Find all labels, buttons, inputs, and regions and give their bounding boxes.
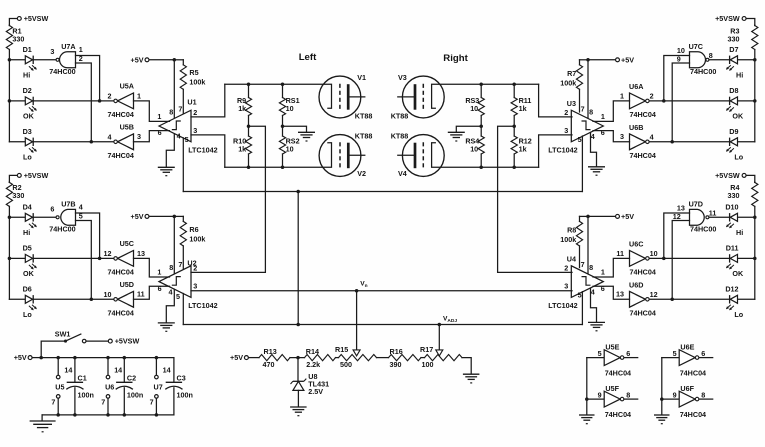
svg-text:R5: R5 [189, 68, 198, 77]
svg-text:U5C: U5C [120, 239, 134, 248]
svg-text:14: 14 [163, 366, 171, 375]
svg-text:1k: 1k [519, 104, 527, 113]
resistor R2 330 [8, 181, 10, 184]
svg-text:74HC04: 74HC04 [680, 369, 706, 378]
svg-text:U6E: U6E [680, 342, 694, 351]
svg-text:+5V: +5V [131, 55, 144, 64]
svg-text:74HC04: 74HC04 [630, 268, 656, 277]
svg-text:+5VSW: +5VSW [715, 14, 740, 23]
resistor R4 330 [754, 181, 756, 184]
junction [8, 58, 12, 62]
junction [8, 257, 12, 261]
junction [586, 215, 590, 219]
junction [670, 140, 674, 144]
svg-text:2: 2 [650, 92, 654, 101]
U4 pin 4 wire to ground [591, 288, 597, 322]
svg-text:12: 12 [650, 290, 658, 299]
U2 pin 5 wire [182, 294, 184, 325]
power terminal +5V (reference chain) [244, 356, 248, 360]
svg-text:Lo: Lo [734, 153, 743, 162]
wire VADJ to R17 wiper [438, 325, 440, 351]
svg-text:8: 8 [169, 108, 173, 117]
svg-text:OK: OK [23, 269, 35, 278]
LED D3 (Lo) [9, 141, 25, 143]
svg-text:U5E: U5E [605, 342, 619, 351]
tube V4 KT88 [402, 135, 444, 177]
svg-text:R17: R17 [420, 345, 433, 354]
svg-text:7: 7 [581, 260, 585, 269]
svg-text:74HC04: 74HC04 [108, 268, 134, 277]
wire switch to +5VSW terminal [86, 340, 107, 342]
wire U7A output to D1 [34, 59, 56, 61]
wire shunt midpoint to ground [283, 126, 307, 132]
svg-text:74HC04: 74HC04 [108, 151, 134, 160]
bottom rail (V4 cathode sense) [432, 143, 539, 168]
wire +5V feed [150, 59, 175, 61]
svg-text:6: 6 [601, 284, 605, 293]
vertical LED bus [8, 60, 10, 142]
svg-text:14: 14 [114, 366, 122, 375]
svg-text:4: 4 [591, 288, 595, 297]
power terminal +5V [616, 58, 620, 62]
junction [247, 166, 251, 170]
svg-text:1k: 1k [238, 145, 246, 154]
svg-text:D3: D3 [23, 127, 32, 136]
junction [512, 166, 516, 170]
svg-text:6: 6 [50, 205, 54, 214]
svg-text:D8: D8 [729, 86, 738, 95]
top supply rail [41, 357, 174, 359]
R15 wiper arrow [353, 350, 360, 356]
power terminal +5VSW (R1 feed) [17, 17, 21, 21]
svg-text:3: 3 [564, 281, 568, 290]
svg-text:U1: U1 [187, 97, 196, 106]
U7C input pin 10 wire [664, 56, 690, 101]
nand gate U7C 74HC00 [690, 52, 706, 68]
svg-text:2: 2 [193, 263, 197, 272]
svg-text:330: 330 [12, 34, 24, 43]
junction [8, 99, 12, 103]
svg-text:8: 8 [169, 263, 173, 272]
svg-text:4: 4 [177, 132, 181, 141]
wire +5V feed [150, 215, 175, 217]
junction VADJ tap [438, 323, 442, 327]
svg-text:5: 5 [185, 135, 189, 144]
svg-text:+5V: +5V [621, 212, 634, 221]
svg-text:2: 2 [564, 263, 568, 272]
svg-text:U3: U3 [567, 99, 576, 108]
junction [296, 190, 300, 194]
U7B input pin 5 wire [76, 221, 92, 300]
svg-text:OK: OK [732, 112, 744, 121]
wire [580, 59, 589, 61]
svg-text:OK: OK [732, 269, 744, 278]
svg-text:V2: V2 [357, 169, 366, 178]
svg-text:U6F: U6F [680, 384, 694, 393]
LED D8 (OK) [738, 100, 755, 102]
junction [585, 397, 589, 401]
svg-text:6: 6 [158, 128, 162, 137]
svg-text:1k: 1k [519, 145, 527, 154]
svg-text:390: 390 [390, 360, 402, 369]
resistor RS4 10 (shunt) [480, 126, 482, 136]
wire +5V feed [588, 59, 615, 61]
inverter U6B 74HC04 [630, 134, 646, 150]
spare inverter input bus (U5E/U5F) [586, 358, 588, 415]
LED D11 (OK) [738, 257, 755, 259]
U7B input pin 4 wire [76, 213, 100, 258]
svg-text:+5VSW: +5VSW [715, 171, 740, 180]
power terminal +5V [616, 214, 620, 218]
svg-text:1: 1 [157, 267, 161, 276]
U5B output wire [34, 141, 114, 143]
op-amp comparator U3 LTC1042 [571, 110, 603, 142]
wire to switch [41, 341, 64, 358]
svg-text:2: 2 [108, 92, 112, 101]
svg-text:D2: D2 [23, 86, 32, 95]
svg-text:Lo: Lo [23, 153, 32, 162]
svg-text:KT88: KT88 [355, 132, 373, 141]
svg-text:U7C: U7C [689, 42, 703, 51]
svg-text:11: 11 [137, 290, 145, 299]
junction [662, 257, 666, 261]
junction RS3/RS4 [479, 124, 483, 128]
svg-text:10: 10 [104, 290, 112, 299]
svg-text:R8: R8 [567, 225, 576, 234]
svg-text:LTC1042: LTC1042 [548, 145, 577, 154]
IC U7 power pins [155, 356, 159, 360]
svg-text:+5VSW: +5VSW [115, 337, 140, 346]
svg-text:10: 10 [286, 104, 294, 113]
junction [8, 216, 12, 220]
wire [377, 357, 389, 359]
bottom ground rail [42, 414, 174, 416]
svg-text:1: 1 [601, 112, 605, 121]
svg-text:100k: 100k [189, 78, 205, 87]
U4 pin 6 wire [593, 286, 630, 299]
svg-text:1k: 1k [238, 104, 246, 113]
svg-text:4: 4 [591, 132, 595, 141]
svg-text:C3: C3 [177, 373, 186, 382]
ground [588, 321, 605, 323]
bottom rail (V2 cathode sense) [225, 143, 332, 168]
wire [9, 19, 16, 26]
inverter U6F 74HC04 (spare) [662, 398, 679, 400]
U7C input pin 9 wire [672, 63, 689, 142]
power terminal +5V [145, 214, 149, 218]
power terminal +5V (logic supply) [28, 356, 32, 360]
svg-text:6: 6 [158, 284, 162, 293]
svg-text:100k: 100k [560, 235, 576, 244]
svg-text:1: 1 [620, 91, 624, 100]
svg-text:Hi: Hi [736, 228, 743, 237]
svg-text:U4: U4 [567, 255, 576, 264]
svg-text:5: 5 [79, 212, 83, 221]
ground (main) [30, 420, 56, 422]
power terminal +5V [145, 58, 149, 62]
inverter U5C 74HC04 [118, 251, 134, 267]
resistor R11 1k [513, 84, 515, 97]
junction TL431 node [296, 356, 300, 360]
potentiometer R15 500 [339, 355, 377, 361]
svg-text:U7D: U7D [689, 200, 703, 209]
svg-text:U6A: U6A [629, 82, 643, 91]
power terminal +5VSW (switched rail) [108, 339, 112, 343]
power terminal +5VSW (R2 feed) [17, 173, 21, 177]
svg-text:5: 5 [578, 135, 582, 144]
resistor R7 100k [579, 60, 581, 65]
junction [660, 397, 664, 401]
LED D5 (OK) [9, 257, 25, 259]
resistor R8 100k [579, 216, 581, 221]
svg-text:500: 500 [340, 360, 352, 369]
svg-text:LTC1042: LTC1042 [548, 301, 577, 310]
vertical LED bus [754, 217, 756, 299]
svg-text:D10: D10 [725, 203, 738, 212]
U2 pin 4 wire to ground [166, 289, 174, 323]
svg-text:4: 4 [650, 133, 654, 142]
bus A (U1 pin5 to U3 pin5) [183, 191, 582, 193]
U3 pin 4 wire to ground [591, 133, 597, 167]
wire [580, 215, 589, 217]
svg-text:470: 470 [263, 360, 275, 369]
svg-text:5: 5 [578, 291, 582, 300]
svg-text:V4: V4 [398, 169, 407, 178]
svg-text:U7B: U7B [61, 200, 75, 209]
svg-text:D9: D9 [729, 127, 738, 136]
svg-text:R7: R7 [567, 69, 576, 78]
wire U7B output to D4 [34, 216, 56, 218]
inverter U6E 74HC04 (spare) [662, 357, 679, 359]
resistor R3 330 [754, 24, 756, 27]
svg-text:OK: OK [23, 112, 35, 121]
svg-text:Left: Left [299, 52, 317, 63]
U1 pin 8 wire [173, 60, 175, 119]
resistor R12 1k [513, 126, 515, 136]
svg-text:100: 100 [422, 360, 434, 369]
U2 pin 8 wire [173, 216, 175, 274]
LED D10 (Hi) [738, 216, 755, 218]
resistor R1 330 [8, 24, 10, 27]
svg-text:9: 9 [677, 54, 681, 63]
svg-text:V1: V1 [357, 73, 366, 82]
svg-text:10: 10 [650, 249, 658, 258]
svg-text:100n: 100n [177, 391, 193, 400]
svg-text:1: 1 [157, 112, 161, 121]
U1 pin 6 wire from U5B [134, 131, 170, 142]
power terminal +5VSW (R3 feed) [742, 17, 746, 21]
svg-text:3: 3 [193, 126, 197, 135]
svg-text:13: 13 [616, 290, 624, 299]
potentiometer R17 100 [425, 355, 463, 361]
tube V1 KT88 [319, 76, 361, 118]
resistor RS2 10 (shunt) [282, 126, 284, 136]
U3 pin 6 wire [593, 131, 630, 142]
U5A output wire [34, 100, 114, 102]
vertical LED bus [8, 217, 10, 299]
shunt reference U8 TL431 2.5V [297, 358, 299, 382]
resistor R6 100k [182, 216, 184, 221]
svg-text:74HC04: 74HC04 [605, 410, 631, 419]
junction [39, 356, 43, 360]
svg-text:74HC04: 74HC04 [605, 369, 631, 378]
svg-text:+5V: +5V [131, 212, 144, 221]
svg-text:U6D: U6D [629, 281, 643, 290]
U4 pin 5 wire [581, 292, 583, 325]
wire U7D output to D10 [709, 216, 729, 218]
LED D9 (Lo) [738, 141, 755, 143]
inverter U5B 74HC04 [118, 134, 134, 150]
svg-text:3: 3 [564, 126, 568, 135]
wire [421, 357, 425, 359]
junction [479, 83, 483, 87]
junction [753, 99, 757, 103]
junction R11/R12 [512, 124, 516, 128]
LED D6 (Lo) [9, 298, 25, 300]
junction [173, 215, 177, 219]
junction [753, 58, 757, 62]
IC U5 power pins [56, 356, 60, 360]
U2 pin 1 wire from U5C [134, 258, 170, 277]
svg-text:8: 8 [709, 51, 713, 60]
U1 pin 4 wire to ground [166, 134, 174, 168]
svg-text:1: 1 [601, 267, 605, 276]
top rail (V1 cathode sense) [225, 84, 332, 108]
nand gate U7A 74HC00 [60, 52, 76, 68]
resistor R5 100k [182, 60, 184, 65]
capacitor C3 100n [173, 358, 175, 383]
wire [174, 215, 183, 217]
svg-text:KT88: KT88 [391, 112, 409, 121]
svg-text:D6: D6 [23, 285, 32, 294]
svg-text:R14: R14 [306, 347, 319, 356]
svg-text:7: 7 [51, 398, 55, 407]
svg-text:5: 5 [598, 349, 602, 358]
junction [670, 298, 674, 302]
svg-text:2: 2 [564, 108, 568, 117]
svg-text:8: 8 [589, 108, 593, 117]
svg-text:KT88: KT88 [391, 132, 409, 141]
svg-text:D4: D4 [23, 203, 32, 212]
nand gate U7D 74HC00 [690, 209, 705, 225]
wire U3 pin 2 to top rail [539, 84, 572, 117]
svg-text:100k: 100k [560, 78, 576, 87]
wire U7C output to D7 [709, 59, 729, 61]
LED D12 (Lo) [738, 298, 755, 300]
op-amp comparator U1 LTC1042 [159, 110, 191, 142]
LED D4 (Hi) [9, 216, 25, 218]
inverter U5A 74HC04 [118, 93, 134, 109]
LED D1 (Hi) [9, 59, 25, 61]
junction [90, 298, 94, 302]
svg-text:D1: D1 [23, 45, 32, 54]
ground [463, 373, 480, 375]
wire chain end to ground [462, 358, 471, 374]
svg-text:R15: R15 [335, 345, 348, 354]
inverter U6D 74HC04 [630, 291, 646, 307]
svg-text:U6C: U6C [629, 240, 643, 249]
svg-text:SW1: SW1 [55, 330, 71, 339]
junction [281, 83, 285, 87]
junction [281, 166, 285, 170]
svg-text:9: 9 [673, 390, 677, 399]
svg-text:4: 4 [108, 133, 112, 142]
U3 pin 1 wire [593, 101, 630, 122]
svg-text:Right: Right [443, 53, 468, 64]
resistor R10 1k [248, 126, 250, 136]
ground [158, 166, 175, 168]
svg-text:D7: D7 [729, 45, 738, 54]
resistor R14 2.2k [305, 355, 336, 361]
wire [290, 357, 305, 359]
svg-text:74HC04: 74HC04 [630, 309, 656, 318]
svg-text:LTC1042: LTC1042 [188, 145, 217, 154]
svg-text:10: 10 [470, 145, 478, 154]
svg-text:C1: C1 [78, 373, 87, 382]
spare inverter input bus (U6E/U6F) [661, 358, 663, 415]
ground [290, 406, 307, 408]
top rail (V3 cathode sense) [432, 84, 539, 108]
svg-text:100n: 100n [78, 391, 94, 400]
wire [747, 19, 755, 26]
U1 pin 5 wire [182, 138, 184, 192]
svg-text:3: 3 [193, 281, 197, 290]
svg-text:1: 1 [79, 45, 83, 54]
R17 wiper arrow [436, 350, 443, 356]
svg-text:8: 8 [701, 390, 705, 399]
svg-text:2.5V: 2.5V [308, 387, 323, 396]
svg-text:3: 3 [50, 47, 54, 56]
svg-text:R6: R6 [189, 225, 198, 234]
inverter U5E 74HC04 (spare) [587, 357, 604, 359]
svg-text:U5D: U5D [120, 280, 134, 289]
junction [512, 83, 516, 87]
LED D2 (OK) [9, 100, 25, 102]
wire U1 pin 3 to bottom rail [191, 135, 225, 167]
svg-text:2.2k: 2.2k [306, 360, 320, 369]
wire [336, 357, 339, 359]
svg-text:U5: U5 [55, 383, 64, 392]
svg-text:2: 2 [79, 54, 83, 63]
ground [654, 414, 670, 416]
wire [747, 175, 755, 182]
switch SW1 [64, 340, 67, 343]
junction [90, 140, 94, 144]
junction [586, 58, 590, 62]
svg-text:V3: V3 [398, 73, 407, 82]
svg-text:R13: R13 [264, 347, 277, 356]
U2 pin 6 wire from U5D [134, 286, 170, 299]
svg-text:Hi: Hi [23, 71, 30, 80]
svg-text:4: 4 [79, 203, 83, 212]
wire R11/R12 tap to U4 pin 2 [498, 126, 572, 272]
U6D output wire [650, 298, 730, 300]
vertical LED bus [754, 60, 756, 142]
svg-text:Hi: Hi [23, 228, 30, 237]
svg-text:13: 13 [137, 249, 145, 258]
junction [173, 58, 177, 62]
U6C output wire [650, 257, 730, 259]
svg-text:330: 330 [728, 191, 740, 200]
svg-text:LTC1042: LTC1042 [188, 301, 217, 310]
svg-text:100n: 100n [127, 391, 143, 400]
svg-text:+5VSW: +5VSW [24, 14, 49, 23]
junction [247, 83, 251, 87]
svg-text:10: 10 [286, 145, 294, 154]
svg-text:74HC00: 74HC00 [690, 67, 716, 76]
svg-text:U5F: U5F [605, 384, 619, 393]
junction [662, 99, 666, 103]
